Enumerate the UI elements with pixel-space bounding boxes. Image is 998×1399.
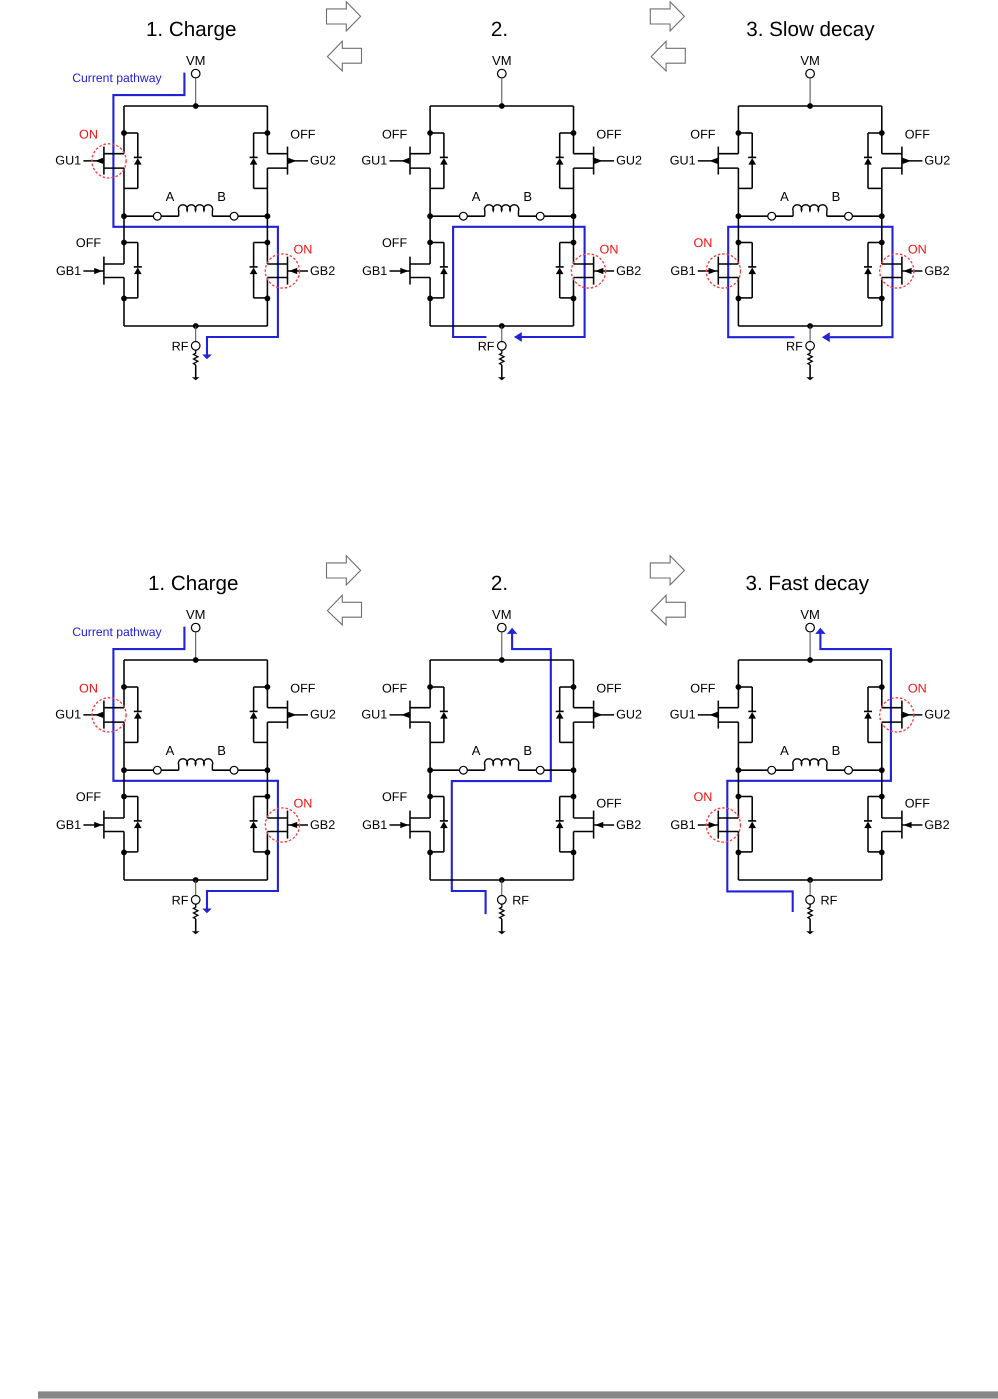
svg-text:GU1: GU1: [670, 708, 696, 722]
svg-text:OFF: OFF: [382, 790, 407, 804]
inductor motor coil (circuit 2): [485, 205, 519, 216]
wire right branch mid: [573, 168, 575, 264]
junction node B branch: [265, 767, 271, 773]
body diode of GU2 (circuit 2): [556, 133, 574, 188]
svg-text:VM: VM: [186, 53, 206, 68]
current pathway arrowhead (circuit 3): [822, 332, 830, 342]
junction GU1 drain: [427, 130, 433, 136]
wire left branch upper: [429, 660, 431, 708]
wire RF lead: [195, 326, 197, 342]
junction VM/top rail: [193, 657, 199, 663]
svg-text:ON: ON: [908, 682, 927, 696]
wire inductor right: [544, 769, 573, 771]
transistor GB1 (circuit 2): [390, 257, 431, 285]
junction VM/top rail: [193, 103, 199, 109]
current pathway segment (circuit 1): [113, 73, 278, 355]
svg-text:OFF: OFF: [596, 796, 621, 810]
junction node A branch: [427, 767, 433, 773]
body diode of GU1 (circuit 3): [738, 133, 756, 188]
junction RF/bottom rail: [193, 323, 199, 329]
wire coil to node B: [519, 215, 537, 217]
junction node B branch: [265, 213, 271, 219]
svg-text:ON: ON: [693, 236, 712, 250]
ground arrow: [192, 365, 200, 381]
svg-text:GB2: GB2: [616, 818, 641, 832]
junction GB2 source: [879, 850, 885, 856]
footer rule bar: [38, 1391, 998, 1398]
junction GB1 source: [427, 850, 433, 856]
transistor GU1 (circuit 6): [698, 701, 739, 729]
wire bottom rail: [738, 325, 881, 327]
wire right branch mid: [881, 168, 883, 264]
transistor GU2 (circuit 3): [882, 147, 923, 175]
junction GU2 drain: [571, 684, 577, 690]
svg-text:GB2: GB2: [616, 264, 641, 278]
node A terminal (circuit 6): [768, 766, 776, 774]
svg-text:GB2: GB2: [924, 264, 949, 278]
body diode of GB1 (circuit 4): [124, 797, 142, 852]
VM terminal (circuit 3): [806, 69, 815, 78]
junction GB2 source: [879, 296, 885, 302]
body diode of GU1 (circuit 4): [124, 687, 142, 742]
transistor GB2 (circuit 6): [882, 811, 923, 839]
transistor GB1 (circuit 6): [698, 811, 739, 839]
node A terminal (circuit 2): [460, 212, 468, 220]
junction GU1 drain: [121, 130, 127, 136]
junction node B branch: [571, 213, 577, 219]
junction GB1 drain: [121, 794, 127, 800]
wire left branch upper: [123, 106, 125, 154]
wire bottom rail: [430, 325, 573, 327]
wire left branch mid: [429, 168, 431, 264]
inductor motor coil (circuit 6): [793, 759, 827, 770]
current pathway segment (circuit 4): [113, 627, 278, 909]
ON circle around GB2 circuit 3: [880, 254, 914, 288]
svg-text:RF: RF: [786, 339, 803, 353]
junction GB2 drain: [571, 794, 577, 800]
wire left branch mid: [429, 722, 431, 818]
wire inductor left: [430, 215, 459, 217]
svg-text:OFF: OFF: [290, 682, 315, 696]
svg-text:RF: RF: [172, 339, 189, 353]
wire VM lead: [501, 78, 503, 106]
wire bottom rail: [124, 325, 267, 327]
transistor GB1 (circuit 4): [83, 811, 124, 839]
RF terminal (circuit 1): [191, 342, 200, 351]
transition arrow right: [650, 2, 684, 31]
svg-text:VM: VM: [800, 53, 820, 68]
junction GB1 source: [736, 296, 742, 302]
svg-text:GB1: GB1: [56, 818, 81, 832]
wire left branch lower: [737, 832, 739, 881]
svg-text:GU2: GU2: [310, 708, 336, 722]
svg-text:OFF: OFF: [905, 128, 930, 142]
junction RF/bottom rail: [499, 323, 505, 329]
inductor motor coil (circuit 3): [793, 205, 827, 216]
node A terminal (circuit 3): [768, 212, 776, 220]
junction GU2 drain: [265, 684, 271, 690]
svg-text:OFF: OFF: [76, 790, 101, 804]
wire left branch mid: [123, 722, 125, 818]
body diode of GU2 (circuit 3): [864, 133, 882, 188]
svg-text:OFF: OFF: [690, 682, 715, 696]
transistor GU2 (circuit 5): [574, 701, 615, 729]
transistor GU1 (circuit 4): [83, 701, 124, 729]
node A terminal (circuit 4): [153, 766, 161, 774]
node B terminal (circuit 5): [536, 766, 544, 774]
wire right branch upper: [881, 660, 883, 708]
current pathway arrowhead (circuit 4): [202, 909, 212, 914]
junction GB1 source: [427, 296, 433, 302]
svg-text:GB1: GB1: [362, 818, 387, 832]
ground arrow: [498, 365, 506, 381]
wire right branch upper: [266, 106, 268, 154]
current pathway segment (circuit 2): [453, 227, 584, 337]
junction GB1 drain: [736, 794, 742, 800]
junction node B branch: [571, 767, 577, 773]
transistor GU1 (circuit 2): [390, 147, 431, 175]
wire left branch upper: [123, 660, 125, 708]
svg-text:GU1: GU1: [361, 708, 387, 722]
wire bottom rail: [738, 879, 881, 881]
svg-text:ON: ON: [79, 128, 98, 142]
svg-text:OFF: OFF: [382, 682, 407, 696]
ON circle around GB2 circuit 2: [571, 254, 605, 288]
junction node A branch: [736, 213, 742, 219]
svg-text:GU1: GU1: [55, 708, 81, 722]
svg-text:GB2: GB2: [310, 818, 335, 832]
junction GU1 drain: [736, 130, 742, 136]
junction RF/bottom rail: [807, 323, 813, 329]
transition arrow left: [651, 595, 685, 625]
wire inductor left: [124, 769, 153, 771]
transistor GB2 (circuit 1): [267, 257, 308, 285]
junction GB1 source: [121, 296, 127, 302]
junction VM/top rail: [499, 657, 505, 663]
svg-text:OFF: OFF: [76, 236, 101, 250]
wire inductor left: [430, 769, 459, 771]
svg-text:OFF: OFF: [382, 236, 407, 250]
ON circle around GB2 circuit 4: [265, 808, 299, 842]
wire inductor right: [238, 215, 267, 217]
transistor GU2 (circuit 2): [574, 147, 615, 175]
junction VM/top rail: [807, 103, 813, 109]
wire left branch mid: [737, 168, 739, 264]
svg-text:OFF: OFF: [290, 128, 315, 142]
svg-text:GU1: GU1: [361, 154, 387, 168]
ON circle around GU2 circuit 6: [880, 698, 914, 732]
wire right branch upper: [573, 660, 575, 708]
svg-text:OFF: OFF: [905, 796, 930, 810]
svg-text:GB2: GB2: [310, 264, 335, 278]
svg-text:RF: RF: [478, 339, 495, 353]
RF terminal (circuit 4): [191, 896, 200, 905]
transistor GU1 (circuit 3): [698, 147, 739, 175]
node B terminal (circuit 2): [536, 212, 544, 220]
junction GB2 drain: [265, 240, 271, 246]
RF terminal (circuit 6): [806, 896, 815, 905]
wire node A to coil: [467, 769, 485, 771]
current pathway segment (circuit 5): [452, 634, 551, 915]
wire left branch upper: [737, 660, 739, 708]
junction GB2 source: [265, 296, 271, 302]
junction GB1 drain: [121, 240, 127, 246]
wire right branch lower: [573, 278, 575, 327]
VM terminal (circuit 4): [191, 623, 200, 632]
svg-text:2.: 2.: [491, 18, 508, 41]
junction RF/bottom rail: [193, 877, 199, 883]
wire left branch upper: [429, 106, 431, 154]
body diode of GB2 (circuit 4): [250, 797, 268, 852]
body diode of GU2 (circuit 6): [864, 687, 882, 742]
wire inductor right: [852, 769, 881, 771]
svg-text:OFF: OFF: [596, 128, 621, 142]
junction GB1 source: [736, 850, 742, 856]
junction GB2 drain: [879, 794, 885, 800]
VM terminal (circuit 5): [498, 623, 507, 632]
junction GU1 drain: [427, 684, 433, 690]
wire VM lead: [809, 632, 811, 660]
svg-text:VM: VM: [186, 607, 206, 622]
transition arrow right: [327, 2, 361, 31]
wire right branch mid: [266, 722, 268, 818]
svg-text:VM: VM: [800, 607, 820, 622]
resistor RF sense (circuit 1): [194, 350, 198, 365]
svg-text:GU1: GU1: [670, 154, 696, 168]
current pathway arrowhead (circuit 1): [202, 355, 212, 360]
node B terminal (circuit 1): [230, 212, 238, 220]
wire inductor right: [544, 215, 573, 217]
ON circle around GU1 circuit 1: [92, 144, 126, 178]
transistor GU1 (circuit 5): [390, 701, 431, 729]
svg-text:GB1: GB1: [670, 264, 695, 278]
svg-text:GB1: GB1: [362, 264, 387, 278]
junction node B branch: [879, 213, 885, 219]
svg-text:RF: RF: [821, 893, 838, 907]
transistor GB2 (circuit 2): [574, 257, 615, 285]
wire VM lead: [809, 78, 811, 106]
junction GU1 drain: [736, 684, 742, 690]
wire RF lead: [809, 326, 811, 342]
svg-text:A: A: [166, 189, 175, 204]
current pathway arrowhead (circuit 2): [514, 332, 522, 342]
wire left branch lower: [123, 278, 125, 327]
transistor GU2 (circuit 4): [267, 701, 308, 729]
wire inductor right: [852, 215, 881, 217]
RF terminal (circuit 2): [498, 342, 507, 351]
current pathway arrowhead (circuit 6): [815, 628, 825, 634]
wire right branch lower: [881, 832, 883, 881]
wire coil to node B: [212, 769, 230, 771]
wire right branch lower: [881, 278, 883, 327]
svg-text:Current pathway: Current pathway: [72, 71, 162, 85]
junction GB2 source: [265, 850, 271, 856]
wire VM lead: [501, 632, 503, 660]
junction GU2 drain: [571, 130, 577, 136]
wire left branch mid: [123, 168, 125, 264]
svg-text:3. Fast decay: 3. Fast decay: [745, 572, 869, 595]
wire left branch lower: [737, 278, 739, 327]
current pathway arrowhead (circuit 5): [507, 628, 517, 634]
junction GU2 drain: [265, 130, 271, 136]
svg-text:B: B: [832, 189, 841, 204]
svg-text:ON: ON: [693, 790, 712, 804]
node A terminal (circuit 5): [460, 766, 468, 774]
body diode of GB2 (circuit 2): [556, 243, 574, 298]
junction GB1 source: [121, 850, 127, 856]
svg-text:ON: ON: [600, 242, 619, 256]
svg-text:OFF: OFF: [596, 682, 621, 696]
transistor GB1 (circuit 3): [698, 257, 739, 285]
resistor RF sense (circuit 5): [500, 904, 504, 919]
wire right branch lower: [266, 832, 268, 881]
transistor GU2 (circuit 1): [267, 147, 308, 175]
wire VM lead: [195, 78, 197, 106]
transition arrow right: [327, 556, 361, 585]
svg-text:A: A: [166, 743, 175, 758]
transition arrow left: [327, 595, 361, 625]
svg-text:A: A: [472, 743, 481, 758]
junction GU2 drain: [879, 130, 885, 136]
junction VM/top rail: [807, 657, 813, 663]
VM terminal (circuit 1): [191, 69, 200, 78]
wire node A to coil: [161, 215, 179, 217]
svg-text:VM: VM: [492, 607, 512, 622]
svg-text:1. Charge: 1. Charge: [148, 572, 238, 595]
junction GB2 drain: [571, 240, 577, 246]
wire left branch lower: [429, 278, 431, 327]
transition arrow right: [650, 556, 684, 585]
body diode of GB2 (circuit 1): [250, 243, 268, 298]
junction GB1 drain: [736, 240, 742, 246]
svg-text:OFF: OFF: [382, 128, 407, 142]
transistor GB1 (circuit 5): [390, 811, 431, 839]
body diode of GB1 (circuit 3): [738, 243, 756, 298]
svg-text:RF: RF: [512, 893, 529, 907]
wire RF lead: [809, 880, 811, 896]
wire RF lead: [195, 880, 197, 896]
body diode of GB1 (circuit 6): [738, 797, 756, 852]
svg-text:ON: ON: [79, 682, 98, 696]
svg-text:B: B: [523, 743, 532, 758]
ON circle around GB1 circuit 6: [706, 808, 740, 842]
wire VM lead: [195, 632, 197, 660]
transistor GU2 (circuit 6): [882, 701, 923, 729]
transition arrow left: [327, 41, 361, 71]
ground arrow: [806, 919, 814, 935]
body diode of GU2 (circuit 5): [556, 687, 574, 742]
wire inductor left: [738, 215, 767, 217]
junction node A branch: [121, 767, 127, 773]
svg-text:ON: ON: [293, 242, 312, 256]
wire RF lead: [501, 880, 503, 896]
body diode of GB1 (circuit 1): [124, 243, 142, 298]
body diode of GB1 (circuit 5): [430, 797, 448, 852]
junction GB1 drain: [427, 240, 433, 246]
svg-text:ON: ON: [293, 796, 312, 810]
wire right branch mid: [881, 722, 883, 818]
svg-text:B: B: [523, 189, 532, 204]
junction GB2 drain: [879, 240, 885, 246]
node B terminal (circuit 4): [230, 766, 238, 774]
VM terminal (circuit 6): [806, 623, 815, 632]
svg-text:GB2: GB2: [924, 818, 949, 832]
svg-text:B: B: [217, 743, 226, 758]
svg-text:GU2: GU2: [616, 708, 642, 722]
ground arrow: [806, 365, 814, 381]
svg-text:RF: RF: [172, 893, 189, 907]
ON circle around GB2 circuit 1: [265, 254, 299, 288]
wire bottom rail: [124, 879, 267, 881]
svg-text:B: B: [217, 189, 226, 204]
body diode of GB2 (circuit 6): [864, 797, 882, 852]
wire top rail: [124, 659, 267, 661]
node B terminal (circuit 6): [845, 766, 853, 774]
body diode of GU1 (circuit 6): [738, 687, 756, 742]
svg-text:A: A: [780, 189, 789, 204]
svg-text:B: B: [832, 743, 841, 758]
wire inductor right: [238, 769, 267, 771]
wire right branch upper: [881, 106, 883, 154]
resistor RF sense (circuit 3): [808, 350, 812, 365]
wire left branch lower: [429, 832, 431, 881]
current pathway segment (circuit 3): [728, 227, 892, 337]
resistor RF sense (circuit 2): [500, 350, 504, 365]
junction VM/top rail: [499, 103, 505, 109]
svg-text:GU2: GU2: [924, 708, 950, 722]
svg-text:GU2: GU2: [616, 154, 642, 168]
svg-text:ON: ON: [908, 242, 927, 256]
junction node A branch: [121, 213, 127, 219]
wire top rail: [738, 659, 881, 661]
inductor motor coil (circuit 1): [178, 205, 212, 216]
ground arrow: [498, 919, 506, 935]
svg-text:A: A: [780, 743, 789, 758]
wire right branch lower: [573, 832, 575, 881]
ON circle around GU1 circuit 4: [92, 698, 126, 732]
junction node A branch: [736, 767, 742, 773]
junction GB2 source: [571, 296, 577, 302]
body diode of GB2 (circuit 5): [556, 797, 574, 852]
wire coil to node B: [827, 769, 845, 771]
transistor GB2 (circuit 3): [882, 257, 923, 285]
wire top rail: [430, 105, 573, 107]
node A terminal (circuit 1): [153, 212, 161, 220]
wire top rail: [738, 105, 881, 107]
transition arrow left: [651, 41, 685, 71]
svg-text:A: A: [472, 189, 481, 204]
body diode of GU2 (circuit 4): [250, 687, 268, 742]
svg-text:GU2: GU2: [310, 154, 336, 168]
wire node A to coil: [161, 769, 179, 771]
ground arrow: [192, 919, 200, 935]
junction GU2 drain: [879, 684, 885, 690]
body diode of GU1 (circuit 2): [430, 133, 448, 188]
svg-text:3. Slow decay: 3. Slow decay: [746, 18, 875, 41]
transistor GB2 (circuit 5): [574, 811, 615, 839]
junction GB2 drain: [265, 794, 271, 800]
body diode of GU2 (circuit 1): [250, 133, 268, 188]
svg-text:2.: 2.: [491, 572, 508, 595]
wire left branch lower: [123, 832, 125, 881]
body diode of GU1 (circuit 5): [430, 687, 448, 742]
body diode of GB1 (circuit 2): [430, 243, 448, 298]
wire coil to node B: [519, 769, 537, 771]
wire coil to node B: [212, 215, 230, 217]
junction node B branch: [879, 767, 885, 773]
wire inductor left: [738, 769, 767, 771]
transistor GB1 (circuit 1): [83, 257, 124, 285]
